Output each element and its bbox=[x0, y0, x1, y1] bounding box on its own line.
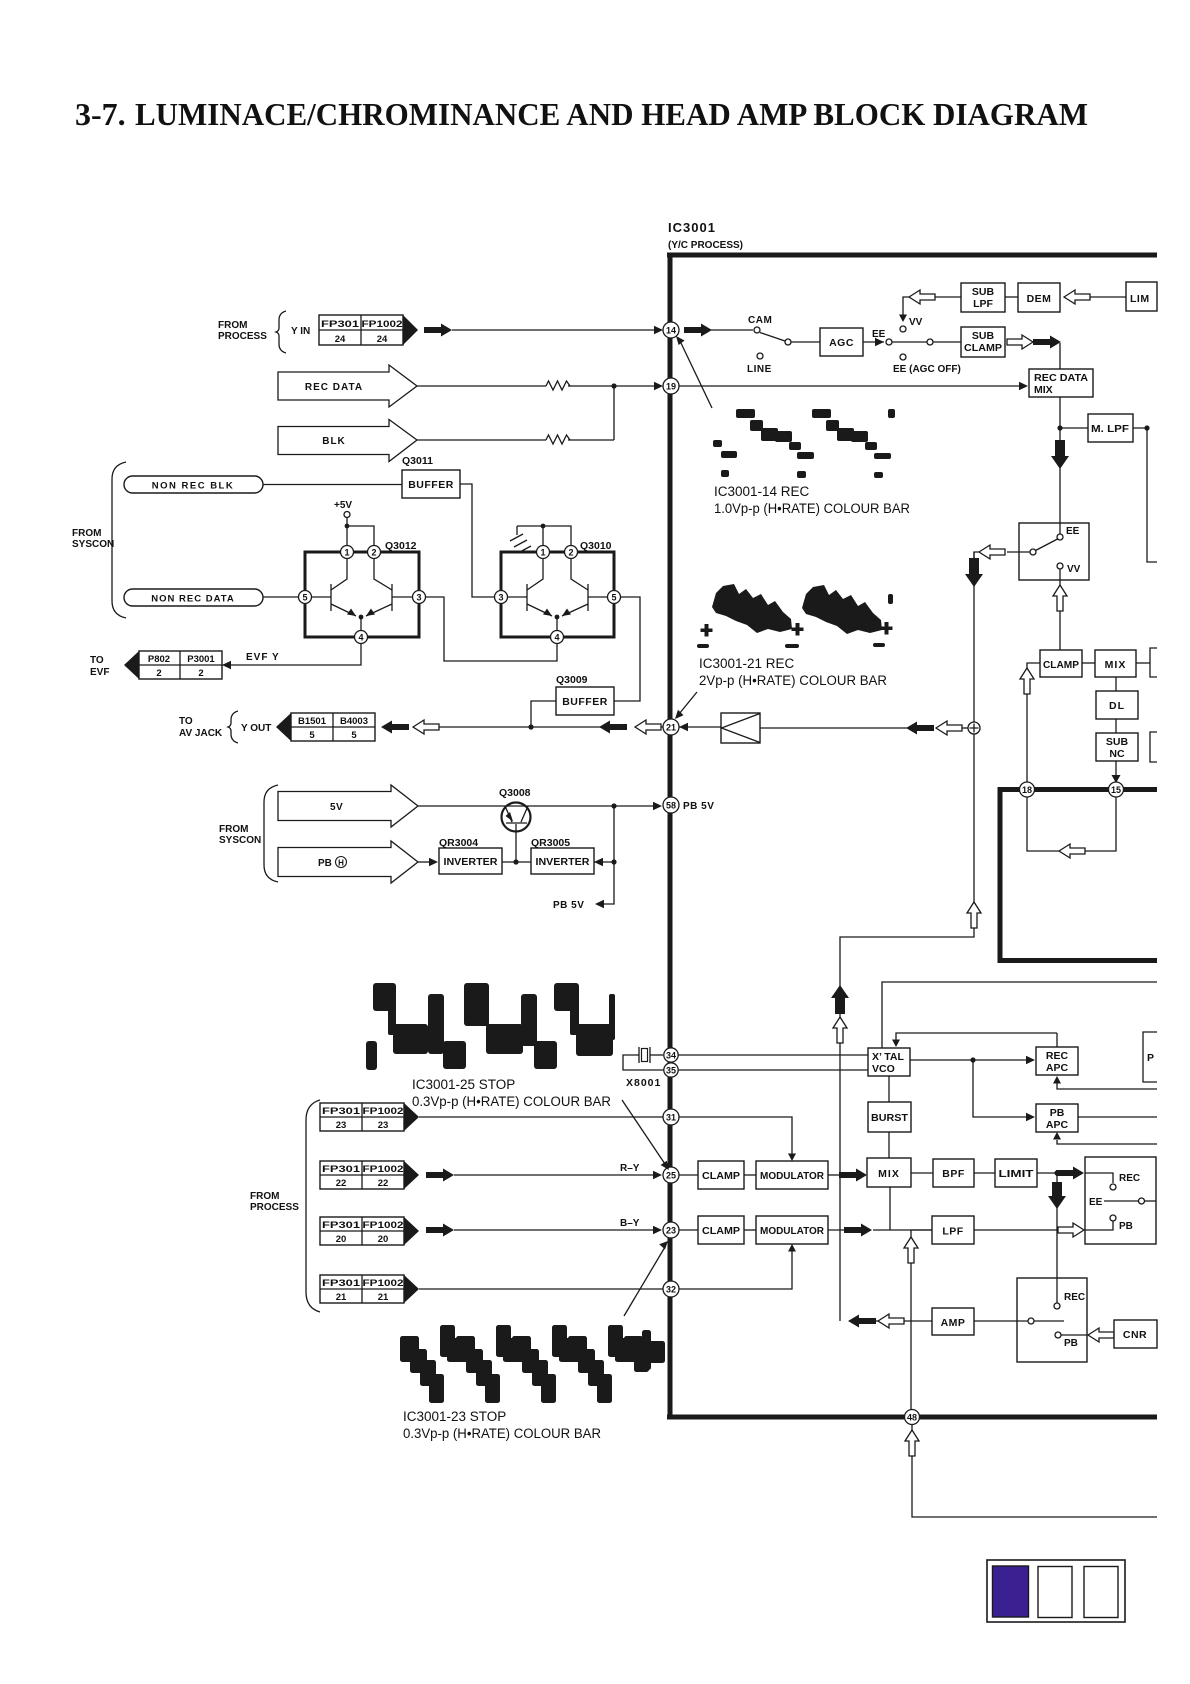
cut box PB (right edge) bbox=[1143, 1032, 1157, 1082]
wire Y OUT bbox=[439, 726, 601, 728]
svg-text:P3001: P3001 bbox=[187, 654, 215, 665]
svg-text:MODULATOR: MODULATOR bbox=[760, 1170, 824, 1182]
pin 2 bbox=[368, 546, 381, 559]
svg-text:Q3011: Q3011 bbox=[402, 455, 433, 467]
waveform photo pin25 colour bar bbox=[366, 983, 615, 1070]
svg-text:M. LPF: M. LPF bbox=[1091, 423, 1130, 435]
head-amp block border bbox=[998, 787, 1158, 963]
node NON REC BLK bbox=[124, 476, 263, 493]
switch box REC/EE/PB (chroma out) bbox=[1085, 1157, 1156, 1244]
svg-text:CLAMP: CLAMP bbox=[702, 1225, 740, 1237]
IC3001 block border bbox=[667, 253, 1157, 1420]
wire into X'TAL VCO top with arrow bbox=[892, 1033, 1057, 1047]
connector FP301/FP1002 pin23 bbox=[320, 1103, 419, 1131]
M. LPF bbox=[1088, 414, 1133, 442]
wire PB APC bottom feedback bbox=[1053, 1132, 1157, 1144]
svg-text:SUB: SUB bbox=[1106, 736, 1129, 748]
svg-text:34: 34 bbox=[666, 1051, 676, 1061]
CNR bbox=[1114, 1320, 1157, 1348]
wire BPF to LIMIT bbox=[974, 1172, 995, 1174]
svg-text:32: 32 bbox=[666, 1285, 676, 1295]
svg-text:3: 3 bbox=[498, 593, 503, 603]
svg-text:MIX: MIX bbox=[878, 1168, 900, 1180]
pin 23 bbox=[663, 1222, 679, 1238]
svg-text:5: 5 bbox=[302, 593, 307, 603]
wire triangle to adder bbox=[760, 727, 908, 729]
label FROM SYSCON (lower) bbox=[219, 785, 278, 882]
wire pin 25 to CLAMP bbox=[679, 1174, 698, 1176]
svg-text:VV: VV bbox=[909, 317, 923, 328]
pin 4 bbox=[551, 631, 564, 644]
REC APC bbox=[1036, 1033, 1078, 1075]
svg-text:BLK: BLK bbox=[322, 436, 346, 447]
svg-text:QR3004: QR3004 bbox=[439, 837, 478, 849]
svg-text:(Y/C PROCESS): (Y/C PROCESS) bbox=[668, 240, 743, 251]
svg-text:QR3005: QR3005 bbox=[531, 837, 570, 849]
pin 48 bbox=[905, 1410, 920, 1425]
svg-text:MODULATOR: MODULATOR bbox=[760, 1225, 824, 1237]
black arrow (Y OUT near pin 21) bbox=[599, 721, 627, 734]
switch CAM/LINE bbox=[747, 315, 791, 375]
svg-text:21: 21 bbox=[336, 1292, 347, 1303]
connector FP301/FP1002 pin24 (Y IN) bbox=[319, 315, 418, 345]
hollow arrow (LIM to DEM) bbox=[1064, 290, 1090, 304]
BLK input arrow bbox=[278, 420, 417, 462]
svg-text:EE: EE bbox=[1066, 526, 1080, 537]
svg-text:2: 2 bbox=[371, 548, 376, 558]
AGC bbox=[820, 328, 863, 356]
svg-text:0.3Vp-p (H•RATE) COLOUR BAR: 0.3Vp-p (H•RATE) COLOUR BAR bbox=[412, 1094, 611, 1109]
svg-text:22: 22 bbox=[378, 1178, 389, 1189]
wire adder bottom down, left, to AMP output line bbox=[831, 734, 981, 1321]
svg-text:CLAMP: CLAMP bbox=[702, 1170, 740, 1182]
svg-text:AV JACK: AV JACK bbox=[179, 728, 223, 739]
black arrow (SUB CLAMP out) bbox=[1033, 336, 1061, 349]
svg-text:2: 2 bbox=[568, 548, 573, 558]
svg-text:+5V: +5V bbox=[334, 500, 352, 511]
svg-text:B1501: B1501 bbox=[298, 716, 327, 727]
resistor on REC DATA line bbox=[546, 381, 570, 390]
wire pin15 to pin18 (U link) bbox=[1027, 797, 1116, 858]
wire switch to AGC bbox=[791, 341, 820, 343]
black arrow Y IN bbox=[424, 324, 452, 337]
wire pin 31 to R-Y modulator top bbox=[679, 1117, 796, 1161]
hollow arrow (EE/VV switch out) bbox=[974, 545, 1005, 559]
connector B1501/B4003 pin5 (Y OUT) bbox=[276, 713, 375, 741]
svg-text:VV: VV bbox=[1067, 564, 1081, 575]
wire Q3012 pin4 to EVF Y bbox=[222, 644, 361, 666]
MIX (chroma) bbox=[867, 1158, 911, 1187]
svg-text:5: 5 bbox=[309, 730, 315, 741]
svg-text:FP1002: FP1002 bbox=[363, 1106, 404, 1117]
pin 32 bbox=[663, 1281, 679, 1297]
hollow arrow (Y OUT near pin 21) bbox=[635, 720, 661, 734]
svg-text:SUB: SUB bbox=[972, 286, 995, 298]
wire REC DATA MIX down to EE/VV switch bbox=[1051, 397, 1069, 534]
wire pin 32 to B-Y modulator bottom bbox=[679, 1244, 796, 1289]
svg-text:VCO: VCO bbox=[872, 1063, 895, 1075]
pointer line waveform to pin 21 bbox=[675, 692, 697, 719]
wire MIX out to cut box bbox=[1136, 648, 1157, 677]
svg-text:EVF Y: EVF Y bbox=[246, 652, 280, 663]
pin 2 bbox=[565, 546, 578, 559]
black arrow (R-Y) bbox=[426, 1169, 454, 1182]
wire to PB 5V label bbox=[553, 862, 614, 911]
svg-text:AMP: AMP bbox=[941, 1317, 966, 1329]
svg-text:FROM: FROM bbox=[219, 824, 248, 835]
pin 25 bbox=[663, 1167, 679, 1183]
svg-text:PB: PB bbox=[1050, 1107, 1065, 1119]
wire NON REC BLK to buffer Q3011 bbox=[263, 484, 402, 486]
wire CLAMP input from pin 18 bbox=[1020, 663, 1040, 783]
svg-text:LPF: LPF bbox=[942, 1226, 963, 1238]
svg-text:15: 15 bbox=[1111, 785, 1121, 795]
wire LPF to switch box bbox=[974, 1223, 1084, 1237]
pin 1 bbox=[341, 546, 354, 559]
svg-text:Q3009: Q3009 bbox=[556, 674, 588, 686]
label TO EVF bbox=[90, 652, 280, 678]
buffer Q3011 bbox=[402, 455, 460, 498]
svg-text:BUFFER: BUFFER bbox=[562, 696, 608, 708]
svg-text:EE: EE bbox=[872, 329, 886, 340]
PB APC bbox=[1036, 1104, 1157, 1132]
AMP bbox=[932, 1308, 974, 1335]
svg-text:Y IN: Y IN bbox=[291, 326, 310, 337]
PB H input arrow bbox=[278, 841, 418, 883]
svg-text:IC3001-14 REC: IC3001-14 REC bbox=[714, 484, 810, 499]
svg-text:22: 22 bbox=[336, 1178, 347, 1189]
switch box REC/PB (head) bbox=[1017, 1278, 1087, 1362]
svg-text:FP301: FP301 bbox=[322, 1220, 361, 1231]
svg-text:FP301: FP301 bbox=[322, 1164, 361, 1175]
wire CLAMP to MODULATOR (B-Y) bbox=[744, 1229, 756, 1231]
svg-text:31: 31 bbox=[666, 1113, 676, 1123]
svg-text:BPF: BPF bbox=[942, 1168, 965, 1180]
svg-text:P802: P802 bbox=[148, 654, 170, 665]
wire inverter QR3005 right side bbox=[594, 806, 617, 866]
connector FP301/FP1002 pin22 bbox=[320, 1161, 419, 1189]
svg-text:X8001: X8001 bbox=[626, 1077, 661, 1089]
svg-text:25: 25 bbox=[666, 1171, 676, 1181]
wire VV contact down to CLAMP bbox=[1053, 569, 1067, 650]
svg-text:FROM: FROM bbox=[72, 528, 101, 539]
svg-text:5: 5 bbox=[611, 593, 616, 603]
wire pin23 connector to pin 31 bbox=[419, 1116, 664, 1118]
wire AMP output left bbox=[848, 1314, 932, 1328]
black arrow (B-Y) bbox=[426, 1224, 454, 1237]
IC3001 label bbox=[668, 220, 743, 251]
waveform photo pin23 colour bar bbox=[400, 1325, 665, 1403]
MODULATOR (B-Y) bbox=[756, 1216, 828, 1244]
svg-text:23: 23 bbox=[336, 1120, 347, 1131]
svg-text:1: 1 bbox=[540, 548, 545, 558]
svg-text:MIX: MIX bbox=[1105, 659, 1127, 671]
wire SUB LPF to DEM bbox=[1005, 296, 1018, 298]
wire pins 34/35 to X'TAL VCO bbox=[678, 1055, 868, 1070]
transistor Q3008 bbox=[499, 787, 531, 861]
wire pin 21 to amp triangle bbox=[678, 723, 721, 731]
svg-text:5V: 5V bbox=[330, 802, 343, 813]
MIX (luma) bbox=[1095, 650, 1136, 677]
svg-text:CLAMP: CLAMP bbox=[964, 342, 1002, 354]
wire AGC to EE contact bbox=[863, 329, 892, 346]
svg-text:24: 24 bbox=[377, 334, 388, 345]
pin 31 bbox=[663, 1109, 679, 1125]
crystal X8001 bbox=[623, 1047, 664, 1089]
cut box right of SUB NC bbox=[1150, 732, 1157, 762]
svg-text:FP1002: FP1002 bbox=[362, 319, 403, 330]
svg-text:B–Y: B–Y bbox=[620, 1218, 640, 1229]
svg-text:APC: APC bbox=[1046, 1119, 1069, 1131]
wire buffer Q3009 output to Y OUT line bbox=[528, 701, 556, 730]
wire LIMIT to REC/PB switch bbox=[1037, 1167, 1084, 1180]
wire AMP to switch bbox=[974, 1320, 1028, 1322]
svg-text:X’ TAL: X’ TAL bbox=[872, 1051, 904, 1063]
svg-text:LIMIT: LIMIT bbox=[999, 1168, 1035, 1180]
svg-text:5: 5 bbox=[351, 730, 357, 741]
legend box bbox=[987, 1560, 1125, 1622]
transistor Q3010 bbox=[495, 540, 621, 644]
svg-text:EE: EE bbox=[1089, 1197, 1103, 1208]
waveform photo pin14 colour bar bbox=[713, 409, 895, 478]
svg-text:FROM: FROM bbox=[250, 1191, 279, 1202]
wire between inverters bbox=[502, 859, 531, 864]
pin 5 bbox=[608, 591, 621, 604]
pin 19 bbox=[663, 378, 679, 394]
wire Y IN to pin 14 bbox=[452, 326, 663, 334]
DEM bbox=[1018, 283, 1060, 312]
inverter QR3004 bbox=[439, 837, 502, 874]
label FROM PROCESS (bottom) bbox=[250, 1100, 320, 1312]
LIMIT bbox=[995, 1159, 1037, 1187]
svg-text:NON REC DATA: NON REC DATA bbox=[151, 594, 234, 605]
svg-text:CLAMP: CLAMP bbox=[1043, 659, 1079, 671]
hollow arrow (SUB CLAMP out) bbox=[1007, 335, 1033, 349]
switch EE / EE(AGC OFF) bbox=[892, 339, 961, 375]
svg-text:PROCESS: PROCESS bbox=[218, 331, 267, 342]
svg-text:FROM: FROM bbox=[218, 320, 247, 331]
SUB NC bbox=[1096, 719, 1138, 761]
waveform photo pin21 colour bar bbox=[697, 584, 893, 648]
wire Q3012 pin3 to Q3010 pin4 bbox=[426, 597, 558, 661]
svg-text:LPF: LPF bbox=[973, 298, 993, 310]
svg-text:REC DATA: REC DATA bbox=[305, 382, 363, 393]
svg-text:18: 18 bbox=[1022, 785, 1032, 795]
svg-text:REC DATA: REC DATA bbox=[1034, 372, 1088, 384]
DL bbox=[1096, 677, 1138, 719]
hollow arrow (Y OUT left) bbox=[413, 720, 439, 734]
LPF bbox=[932, 1216, 974, 1244]
connector FP301/FP1002 pin21 bbox=[320, 1275, 419, 1303]
svg-text:Q3008: Q3008 bbox=[499, 787, 531, 799]
svg-text:MIX: MIX bbox=[1034, 384, 1053, 396]
wire CLAMP to MODULATOR (R-Y) bbox=[744, 1174, 756, 1176]
CLAMP (R-Y) bbox=[698, 1161, 744, 1189]
svg-text:REC: REC bbox=[1046, 1050, 1069, 1062]
BURST bbox=[868, 1076, 911, 1158]
svg-text:23: 23 bbox=[666, 1226, 676, 1236]
svg-text:FP301: FP301 bbox=[322, 1106, 361, 1117]
svg-text:NC: NC bbox=[1109, 748, 1125, 760]
wire Q3010 pin5 to buffer Q3009 bbox=[614, 597, 640, 701]
buffer Q3009 bbox=[556, 674, 614, 715]
svg-text:BUFFER: BUFFER bbox=[408, 479, 454, 491]
connector P802/P3001 pin2 (TO EVF) bbox=[124, 651, 222, 679]
svg-text:21: 21 bbox=[378, 1292, 389, 1303]
wire CLAMP-MIX bbox=[1082, 662, 1095, 664]
legend swatch 3 bbox=[1084, 1567, 1118, 1618]
svg-text:B4003: B4003 bbox=[340, 716, 368, 727]
svg-text:SYSCON: SYSCON bbox=[219, 835, 261, 846]
black arrow after MODULATOR (B-Y) bbox=[828, 1224, 872, 1237]
legend swatch 2 bbox=[1038, 1567, 1072, 1618]
svg-text:2: 2 bbox=[198, 668, 203, 679]
svg-text:CNR: CNR bbox=[1123, 1329, 1147, 1341]
svg-text:REC: REC bbox=[1064, 1292, 1085, 1303]
5V input arrow bbox=[278, 785, 418, 827]
pin 15 bbox=[1109, 782, 1124, 797]
SUB CLAMP bbox=[961, 327, 1005, 357]
pin 3 bbox=[495, 591, 508, 604]
wire X'TAL VCO out to REC APC bbox=[910, 1056, 1035, 1064]
wire pin21 connector to pin 32 bbox=[419, 1288, 664, 1290]
svg-text:LUMINACE/CHROMINANCE AND HEAD: LUMINACE/CHROMINANCE AND HEAD AMP BLOCK … bbox=[135, 96, 1088, 132]
wire REC APC bottom feedback bbox=[1053, 1076, 1157, 1089]
label TO AV JACK bbox=[179, 711, 271, 743]
svg-text:24: 24 bbox=[335, 334, 346, 345]
node NON REC DATA bbox=[124, 589, 263, 606]
svg-text:SYSCON: SYSCON bbox=[72, 539, 114, 550]
svg-text:PROCESS: PROCESS bbox=[250, 1202, 299, 1213]
svg-text:REC: REC bbox=[1119, 1173, 1140, 1184]
wire pin14 to CAM contact bbox=[711, 329, 753, 331]
pin 34 bbox=[664, 1048, 678, 1062]
legend swatch filled bbox=[993, 1566, 1029, 1617]
svg-text:APC: APC bbox=[1046, 1062, 1069, 1074]
wire LIM to DEM bbox=[1090, 296, 1126, 298]
svg-text:20: 20 bbox=[336, 1234, 347, 1245]
black arrow (pin14 to CAM) bbox=[684, 324, 712, 337]
svg-text:FP1002: FP1002 bbox=[363, 1164, 404, 1175]
svg-text:R–Y: R–Y bbox=[620, 1163, 640, 1174]
label FROM SYSCON (upper) bbox=[72, 462, 126, 618]
wire B-Y to pin 23 bbox=[454, 1218, 662, 1234]
wire pin 48 up to LPF input bbox=[904, 1230, 932, 1410]
wire M.LPF right, down, off-page bbox=[1133, 425, 1157, 562]
svg-text:AGC: AGC bbox=[829, 337, 854, 349]
power +5V bbox=[334, 500, 374, 546]
wire to SUB CLAMP bbox=[933, 341, 961, 343]
pin 4 bbox=[355, 631, 368, 644]
svg-text:2: 2 bbox=[156, 668, 161, 679]
wire below pin 48 bbox=[905, 1424, 1157, 1517]
svg-text:2Vp-p (H•RATE) COLOUR BAR: 2Vp-p (H•RATE) COLOUR BAR bbox=[699, 673, 887, 688]
pointer line waveform to pin 23 bbox=[624, 1241, 668, 1316]
REC DATA input arrow bbox=[278, 365, 417, 407]
wire pin 19 to REC DATA MIX bbox=[679, 382, 1028, 390]
svg-text:EE (AGC OFF): EE (AGC OFF) bbox=[893, 364, 961, 375]
resistor on BLK line bbox=[546, 435, 570, 444]
svg-text:LINE: LINE bbox=[747, 364, 772, 375]
CLAMP (luma) bbox=[1040, 650, 1082, 677]
switch box EE/VV bbox=[1007, 523, 1089, 580]
X'TAL VCO bbox=[868, 1048, 910, 1076]
svg-text:Y OUT: Y OUT bbox=[241, 723, 271, 734]
svg-text:FP301: FP301 bbox=[321, 319, 360, 330]
svg-text:1.0Vp-p (H•RATE) COLOUR BAR: 1.0Vp-p (H•RATE) COLOUR BAR bbox=[714, 501, 910, 516]
svg-text:INVERTER: INVERTER bbox=[444, 856, 498, 868]
svg-text:23: 23 bbox=[378, 1120, 389, 1131]
svg-text:DL: DL bbox=[1109, 700, 1125, 712]
LIMITER (cut at page edge) bbox=[1126, 282, 1157, 311]
label IC3001-25 bbox=[412, 1077, 611, 1109]
svg-text:PB: PB bbox=[318, 858, 332, 869]
pin 35 bbox=[664, 1063, 678, 1077]
svg-text:48: 48 bbox=[907, 1413, 917, 1423]
svg-text:IC3001: IC3001 bbox=[668, 220, 716, 235]
wire junction down to PB APC bbox=[973, 1060, 1035, 1121]
svg-text:FP1002: FP1002 bbox=[363, 1278, 404, 1289]
wire PB H to inverter bbox=[418, 858, 438, 866]
wire SUB CLAMP to REC DATA MIX bbox=[1059, 343, 1061, 369]
wire buffer Q3011 output to Q3010 pin3 bbox=[460, 484, 495, 597]
wire X'TAL VCO top up and right (off page) bbox=[882, 982, 1157, 1048]
label FROM PROCESS (top) bbox=[218, 311, 310, 353]
pin 5 bbox=[299, 591, 312, 604]
label IC3001-14 bbox=[714, 484, 910, 516]
wire junction to M.LPF bbox=[1060, 427, 1088, 429]
pin 18 bbox=[1020, 782, 1035, 797]
svg-text:INVERTER: INVERTER bbox=[536, 856, 590, 868]
pin 58 bbox=[663, 797, 714, 813]
pin 14 bbox=[663, 322, 679, 338]
transistor Q3012 bbox=[299, 540, 426, 644]
connector FP301/FP1002 pin20 bbox=[320, 1217, 419, 1245]
svg-text:20: 20 bbox=[378, 1234, 389, 1245]
svg-text:3: 3 bbox=[416, 593, 421, 603]
svg-text:1: 1 bbox=[344, 548, 349, 558]
wire R-Y to pin 25 bbox=[454, 1163, 662, 1179]
svg-text:IC3001-23 STOP: IC3001-23 STOP bbox=[403, 1409, 506, 1424]
svg-text:4: 4 bbox=[358, 633, 363, 643]
wire NON REC DATA to Q3012 pin5 bbox=[263, 596, 299, 598]
svg-text:14: 14 bbox=[666, 326, 676, 336]
svg-text:EVF: EVF bbox=[90, 667, 109, 678]
svg-text:TO: TO bbox=[179, 716, 193, 727]
svg-text:Q3012: Q3012 bbox=[385, 540, 417, 552]
svg-text:FP1002: FP1002 bbox=[363, 1220, 404, 1231]
black arrow (to triangle) bbox=[906, 722, 934, 735]
svg-text:H: H bbox=[338, 859, 344, 868]
svg-text:35: 35 bbox=[666, 1066, 676, 1076]
black arrow MODULATOR to MIX bbox=[828, 1169, 867, 1182]
svg-text:0.3Vp-p (H•RATE) COLOUR BAR: 0.3Vp-p (H•RATE) COLOUR BAR bbox=[403, 1426, 601, 1441]
hollow arrow (SUB LPF out) bbox=[909, 290, 935, 304]
MODULATOR (R-Y) bbox=[756, 1161, 828, 1189]
svg-text:LIM: LIM bbox=[1130, 293, 1150, 305]
label IC3001-21 bbox=[699, 656, 887, 688]
wire B-Y line to MIX bottom and LPF bbox=[873, 1187, 932, 1230]
wire REC DATA to pin 19 bbox=[417, 382, 663, 390]
svg-text:PB: PB bbox=[1064, 1338, 1078, 1349]
pin 1 bbox=[537, 546, 550, 559]
ground (Q3010) bbox=[510, 524, 571, 553]
svg-text:PB: PB bbox=[1119, 1221, 1133, 1232]
svg-text:21: 21 bbox=[666, 723, 676, 733]
wire LIMIT junction down to lower switch bbox=[1048, 1175, 1066, 1303]
pointer line waveform to pin 14 bbox=[676, 336, 712, 408]
svg-text:SUB: SUB bbox=[972, 330, 995, 342]
